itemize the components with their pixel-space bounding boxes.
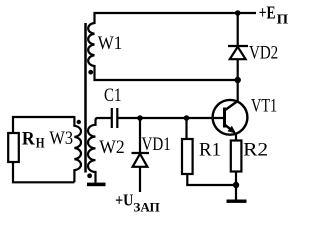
wire R2 bottom lead	[235, 172, 237, 186]
wire C1 to VT1 base	[117, 117, 224, 119]
svg-text:+U: +U	[115, 190, 133, 209]
capacitor C1	[112, 108, 118, 128]
node junction C1/VD1	[137, 115, 143, 121]
node junction VD2 anode / collector	[235, 77, 241, 83]
svg-text:VD2: VD2	[249, 43, 278, 64]
wire VD1 leads	[139, 118, 141, 192]
winding W1	[88, 12, 94, 81]
wire load loop W3 to RH	[13, 117, 74, 182]
transformer core	[84, 23, 87, 173]
svg-text:R1: R1	[199, 139, 221, 160]
node junction top rail / VD2 cathode	[235, 10, 241, 16]
ground at transformer W2 bottom	[87, 183, 106, 187]
wire emitter lead to R2	[235, 134, 237, 141]
svg-text:R2: R2	[243, 139, 268, 160]
svg-text:W1: W1	[98, 33, 123, 54]
svg-text:C1: C1	[104, 85, 122, 106]
resistor R1	[182, 139, 193, 174]
winding W3	[74, 116, 81, 182]
svg-text:H: H	[36, 136, 45, 152]
node W2 phasing dot	[87, 173, 92, 178]
wire base node to R1	[185, 118, 187, 139]
diode VD1	[132, 153, 150, 167]
ground bottom right	[227, 200, 247, 203]
resistor R2	[231, 141, 242, 172]
node junction R2/ground	[233, 182, 239, 188]
node W1 phasing dot	[88, 70, 93, 75]
svg-text:W2: W2	[99, 137, 124, 158]
node junction R1/base	[184, 115, 190, 121]
diode VD2	[228, 46, 248, 59]
wire collector lead	[237, 80, 239, 102]
wire R1 bottom to ground node	[187, 174, 236, 185]
winding W2 with lead to C1	[88, 118, 112, 183]
wire VD2 leads	[237, 13, 239, 80]
svg-text:VD1: VD1	[142, 134, 171, 155]
node W3 phasing dot	[77, 120, 81, 124]
svg-text:ЗАП: ЗАП	[133, 199, 159, 214]
resistor RH	[8, 133, 19, 162]
wire top supply rail +Epi	[94, 12, 257, 14]
svg-text:VT1: VT1	[251, 96, 277, 117]
svg-text:+E: +E	[259, 2, 276, 22]
wire ground stub	[235, 185, 237, 200]
svg-text:П: П	[277, 13, 289, 28]
wire second rail (W1 bottom to VD2 anode / VT1 collector)	[94, 79, 238, 81]
svg-text:R: R	[22, 129, 35, 150]
transistor VT1	[213, 100, 248, 135]
svg-text:W3: W3	[49, 128, 73, 149]
